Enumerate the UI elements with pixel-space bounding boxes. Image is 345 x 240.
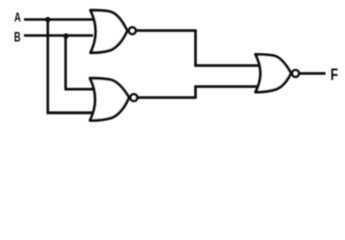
svg-text:B: B — [14, 29, 21, 44]
NOR gate U2 (bottom) — [90, 78, 129, 120]
wire to U3 lower input — [194, 85, 259, 88]
wire to U3 upper input — [194, 64, 259, 67]
wire B branch to U2 upper input — [65, 88, 97, 91]
wire B input — [24, 34, 93, 37]
NOR gate U1 output bubble — [129, 27, 136, 34]
NOR gate U3 (output) — [256, 54, 292, 92]
wire B branch vertical — [64, 36, 67, 90]
wire A branch to U2 lower input — [47, 111, 94, 114]
wire U2 output horizontal — [137, 96, 197, 99]
wire A input — [24, 18, 93, 21]
wire U1 output vertical drop — [194, 31, 197, 66]
node B junction dot — [63, 33, 68, 38]
node A junction dot — [45, 17, 50, 22]
NOR gate U2 output bubble — [130, 94, 137, 101]
svg-text:F: F — [331, 65, 339, 84]
wire A branch vertical — [46, 20, 49, 113]
NOR gate U1 (top) — [91, 10, 128, 53]
NOR gate U3 output bubble — [292, 70, 299, 77]
wire U2 output vertical rise — [194, 87, 197, 98]
wire F output — [299, 72, 326, 75]
svg-text:A: A — [14, 10, 21, 25]
wire U1 output horizontal — [135, 29, 196, 32]
